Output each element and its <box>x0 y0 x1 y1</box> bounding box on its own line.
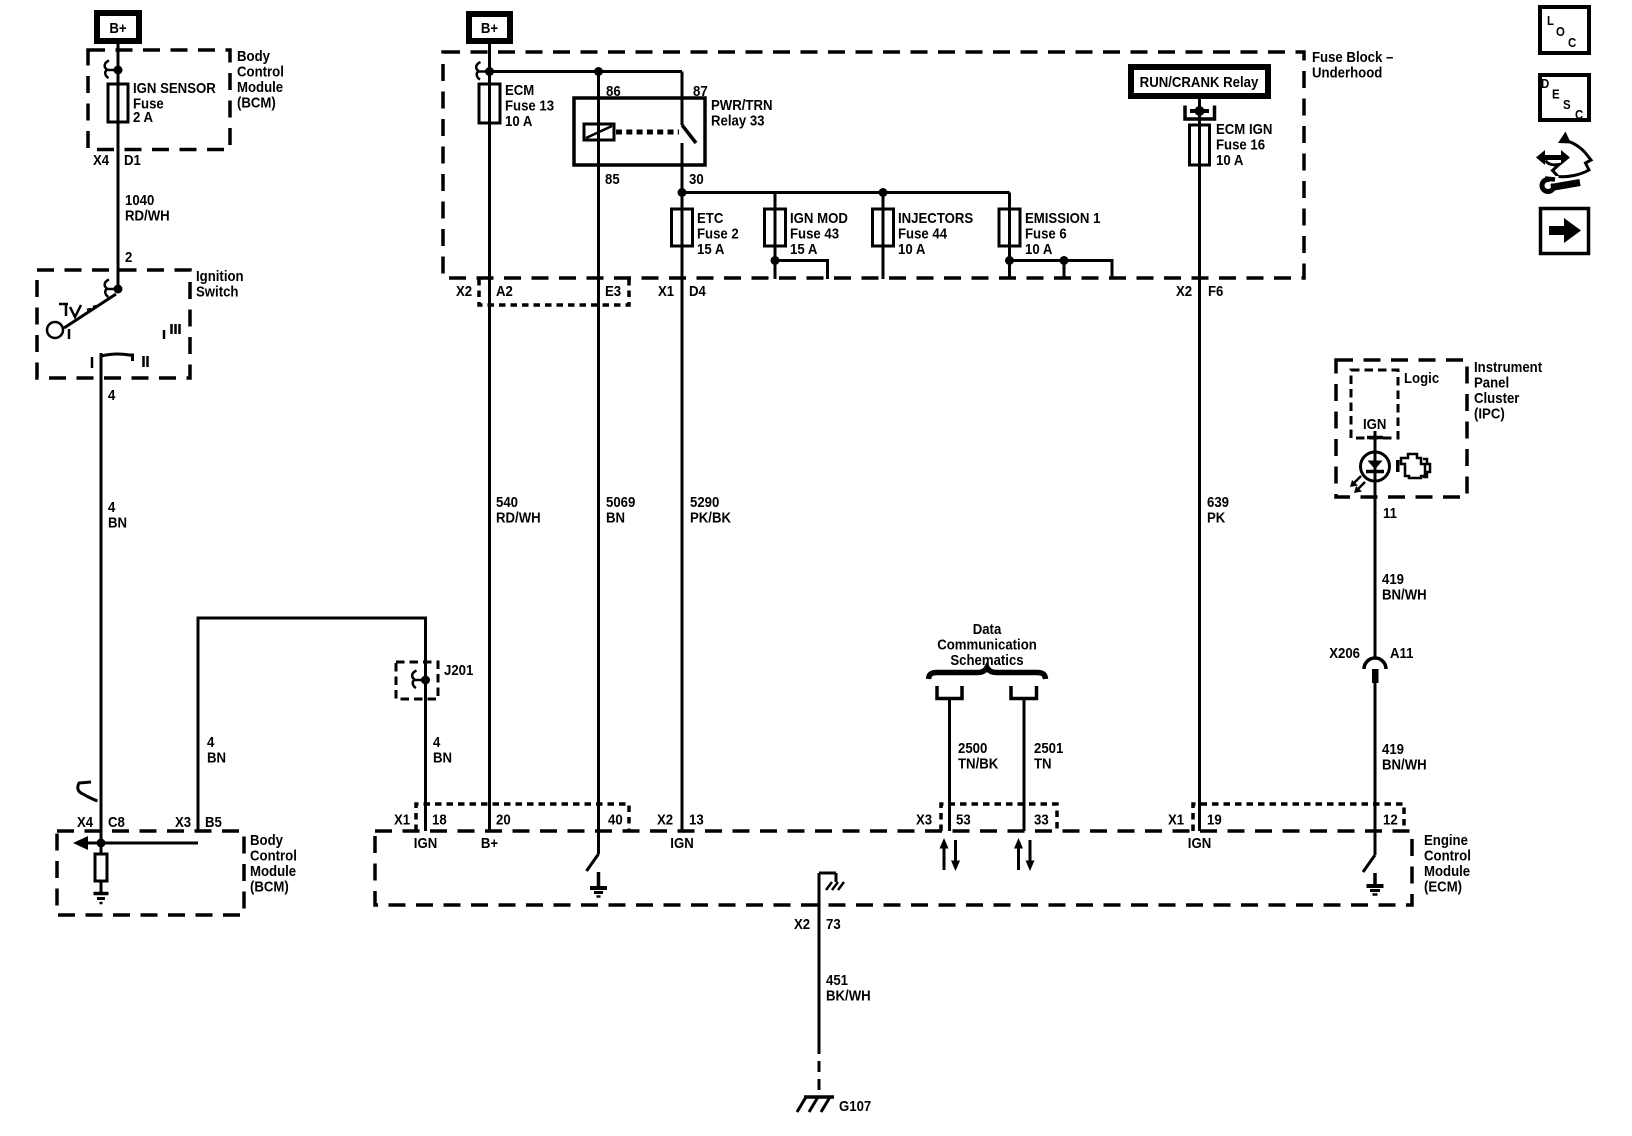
indicator lamp (LED) <box>1350 452 1390 493</box>
BCM internal bus with arrow <box>73 836 198 850</box>
svg-text:S: S <box>1563 97 1571 112</box>
svg-text:4: 4 <box>108 498 115 515</box>
Logic box <box>1351 370 1398 438</box>
RUN/CRANK Relay label box <box>1131 67 1268 96</box>
pin labels X4 D1 <box>93 151 141 168</box>
svg-text:D1: D1 <box>124 151 141 168</box>
svg-text:2 A: 2 A <box>133 108 153 125</box>
svg-text:10 A: 10 A <box>1216 151 1243 168</box>
svg-text:Control: Control <box>250 847 297 864</box>
svg-text:Control: Control <box>237 63 284 80</box>
svg-text:X1: X1 <box>394 811 410 828</box>
icon forward arrow box <box>1541 209 1589 254</box>
svg-text:RD/WH: RD/WH <box>125 207 170 224</box>
Engine Control Module (ECM) box <box>375 831 1412 905</box>
icon LOC box <box>1540 7 1589 53</box>
svg-text:IGN: IGN <box>1363 415 1386 432</box>
arc dashes <box>87 309 91 310</box>
svg-text:(IPC): (IPC) <box>1474 405 1505 422</box>
wire 2501 TN <box>1023 699 1026 832</box>
Body Control Module (BCM) box bottom <box>57 831 244 915</box>
svg-text:Fuse 6: Fuse 6 <box>1025 225 1067 242</box>
wire logic to indicator <box>1367 431 1383 658</box>
svg-text:X206: X206 <box>1329 644 1360 661</box>
svg-text:BN: BN <box>606 509 625 526</box>
splice J201 <box>396 661 473 699</box>
svg-text:419: 419 <box>1382 740 1404 757</box>
junction dot <box>114 66 123 75</box>
pin labels X4 C8 X3 B5 <box>77 813 222 830</box>
fuse IGN MOD Fuse 43 15A <box>765 193 848 280</box>
svg-text:Body: Body <box>250 831 283 848</box>
junction dot pin 2 <box>114 285 123 294</box>
svg-text:10 A: 10 A <box>505 112 532 129</box>
svg-text:X4: X4 <box>93 151 109 168</box>
ignition switch internals <box>47 280 180 369</box>
position mark III <box>170 324 173 334</box>
ECM internal switch and ground pin 12 <box>1363 831 1384 895</box>
svg-text:B+: B+ <box>109 19 126 36</box>
wire label 4 BN (right run) <box>433 733 452 765</box>
wire label 4 BN (left run) <box>207 733 226 765</box>
svg-text:Underhood: Underhood <box>1312 64 1382 81</box>
svg-text:BK/WH: BK/WH <box>826 987 871 1004</box>
ECM connector X3 pin box (53 33) <box>941 804 1057 831</box>
svg-text:Logic: Logic <box>1404 369 1439 386</box>
svg-text:(ECM): (ECM) <box>1424 878 1462 895</box>
wire B+ to ignition switch (through IGN SENSOR fuse) <box>117 44 120 289</box>
svg-text:RUN/CRANK Relay: RUN/CRANK Relay <box>1140 73 1259 90</box>
svg-text:A2: A2 <box>496 282 513 299</box>
svg-text:73: 73 <box>826 915 841 932</box>
svg-text:11: 11 <box>1383 504 1397 521</box>
fuse feed bus <box>682 191 1010 194</box>
relay label PWR/TRN Relay 33 <box>711 96 773 128</box>
relay switch blade <box>682 125 696 143</box>
relay actuation dashed link <box>616 130 679 135</box>
svg-text:Data: Data <box>973 620 1002 637</box>
svg-text:Fuse 16: Fuse 16 <box>1216 136 1265 153</box>
svg-text:X4: X4 <box>77 813 93 830</box>
svg-text:IGN: IGN <box>414 834 437 851</box>
ECM label <box>1424 831 1471 894</box>
wire label 639 PK <box>1207 493 1229 525</box>
svg-text:BN/WH: BN/WH <box>1382 756 1427 773</box>
svg-text:E: E <box>1552 87 1560 102</box>
svg-text:O: O <box>1556 24 1565 39</box>
svg-text:18: 18 <box>432 811 447 828</box>
svg-text:L: L <box>1547 13 1554 28</box>
BCM bottom label <box>250 831 297 894</box>
off-page bracket (2501) <box>1011 686 1037 699</box>
Body Control Module (BCM) box top <box>88 50 230 150</box>
wire 4 BN jumper BCM B5 to J201 to ECM 18 <box>198 618 426 831</box>
relay coil <box>584 124 614 140</box>
junction dot pin 30 <box>678 188 687 197</box>
position mark IV <box>59 303 68 306</box>
svg-text:A11: A11 <box>1390 644 1414 661</box>
svg-text:19: 19 <box>1207 811 1222 828</box>
wire label 419 BN/WH (upper) <box>1382 570 1427 602</box>
svg-text:Relay 33: Relay 33 <box>711 112 765 129</box>
svg-text:Control: Control <box>1424 847 1471 864</box>
svg-text:87: 87 <box>693 82 708 99</box>
off-page bracket (2500) <box>937 686 962 699</box>
wire 451 BK/WH <box>818 905 821 1094</box>
wire label 451 BK/WH <box>826 971 871 1003</box>
svg-text:4: 4 <box>433 733 440 750</box>
ECM internal chassis ground pin 73 <box>819 873 844 905</box>
svg-text:J201: J201 <box>444 661 473 678</box>
svg-text:ECM: ECM <box>505 81 534 98</box>
svg-text:Fuse 44: Fuse 44 <box>898 225 947 242</box>
svg-text:PK/BK: PK/BK <box>690 509 732 526</box>
wire 639 PK (relay to ECM IGN fuse to ECM pin 19) <box>1198 97 1201 831</box>
svg-text:10 A: 10 A <box>1025 240 1052 257</box>
svg-text:Body: Body <box>237 47 270 64</box>
connector terminal hook fuse block feed <box>476 62 485 80</box>
wire 419 BN/WH to ECM pin 12 <box>1374 683 1377 831</box>
serial data arrows pin 33 <box>1014 838 1035 871</box>
wire 5069 BN (relay 85 to ECM pin 40) <box>597 72 600 832</box>
svg-text:(BCM): (BCM) <box>237 94 276 111</box>
svg-text:ECM IGN: ECM IGN <box>1216 120 1272 137</box>
position mark II <box>142 356 145 367</box>
svg-text:Engine: Engine <box>1424 831 1468 848</box>
svg-text:X2: X2 <box>794 915 810 932</box>
svg-text:PWR/TRN: PWR/TRN <box>711 96 773 113</box>
icon DESC box <box>1540 75 1589 122</box>
svg-text:53: 53 <box>956 811 971 828</box>
svg-text:15 A: 15 A <box>697 240 724 257</box>
svg-text:BN: BN <box>433 749 452 766</box>
note Data Communication Schematics <box>937 620 1037 668</box>
svg-text:419: 419 <box>1382 570 1404 587</box>
ECM pin function labels <box>414 834 1211 851</box>
Ignition Switch label <box>196 267 244 299</box>
svg-text:F6: F6 <box>1208 282 1224 299</box>
svg-text:EMISSION 1: EMISSION 1 <box>1025 209 1101 226</box>
svg-text:Ignition: Ignition <box>196 267 244 284</box>
connector X2 pin box <box>479 279 629 305</box>
BCM label <box>237 47 284 110</box>
wire 540 RD/WH (B+ to ECM fuse 13 to ECM pin 20) <box>488 44 491 831</box>
icon jump-to-schematic <box>1536 132 1591 192</box>
svg-text:IGN SENSOR: IGN SENSOR <box>133 79 216 96</box>
svg-text:Fuse 2: Fuse 2 <box>697 225 739 242</box>
svg-text:Module: Module <box>1424 862 1470 879</box>
svg-text:X1: X1 <box>658 282 674 299</box>
svg-text:X3: X3 <box>916 811 932 828</box>
wire label 540 RD/WH <box>496 493 541 525</box>
junction dot injectors branch <box>879 188 888 197</box>
svg-text:540: 540 <box>496 493 518 510</box>
svg-text:20: 20 <box>496 811 511 828</box>
wire label 2500 TN/BK <box>958 739 999 771</box>
junction dot <box>485 67 494 76</box>
ECM internal switch and ground pin 40 <box>587 831 608 897</box>
svg-text:Cluster: Cluster <box>1474 389 1520 406</box>
rotor contact circle <box>47 322 63 338</box>
ECM pin labels <box>394 811 1398 828</box>
power symbol B+ (center, fuse block feed) <box>469 14 510 41</box>
svg-text:1040: 1040 <box>125 191 154 208</box>
wire pin 87 stub <box>681 72 684 126</box>
svg-text:RD/WH: RD/WH <box>496 509 541 526</box>
svg-text:5069: 5069 <box>606 493 635 510</box>
wire label 419 BN/WH (lower) <box>1382 740 1427 772</box>
svg-text:(BCM): (BCM) <box>250 878 289 895</box>
svg-text:86: 86 <box>606 82 621 99</box>
svg-text:PK: PK <box>1207 509 1226 526</box>
svg-text:ETC: ETC <box>697 209 723 226</box>
svg-text:C: C <box>1568 35 1576 50</box>
svg-text:B+: B+ <box>481 834 498 851</box>
fuse INJECTORS Fuse 44 10A <box>873 193 974 280</box>
svg-text:IGN: IGN <box>1188 834 1211 851</box>
svg-text:Fuse 43: Fuse 43 <box>790 225 839 242</box>
wire label 1040 RD/WH <box>125 191 170 223</box>
svg-text:BN: BN <box>108 514 127 531</box>
svg-text:D: D <box>1541 76 1549 91</box>
svg-text:15 A: 15 A <box>790 240 817 257</box>
svg-text:12: 12 <box>1383 811 1398 828</box>
svg-text:639: 639 <box>1207 493 1229 510</box>
ECM connector X1 pin box (19 12) <box>1193 804 1404 831</box>
fuse ECM Fuse 13 10A <box>479 81 554 129</box>
wire label 2501 TN <box>1034 739 1063 771</box>
ground G107 <box>797 1097 871 1114</box>
inline connector X206 A11 <box>1329 644 1413 683</box>
svg-text:Module: Module <box>250 862 296 879</box>
svg-text:5290: 5290 <box>690 493 719 510</box>
svg-text:4: 4 <box>207 733 214 750</box>
svg-text:30: 30 <box>689 170 704 187</box>
svg-text:C: C <box>1575 107 1583 122</box>
ECM connector X1 pin box (18 20 40) <box>416 804 629 831</box>
svg-text:X1: X1 <box>1168 811 1184 828</box>
svg-text:Fuse Block –: Fuse Block – <box>1312 48 1393 65</box>
svg-text:IGN MOD: IGN MOD <box>790 209 848 226</box>
junction dot pin 86 branch <box>594 67 603 76</box>
relay output terminal bracket <box>1185 106 1215 120</box>
connector terminal hook (BCM B+ input) <box>105 61 114 79</box>
svg-text:X2: X2 <box>657 811 673 828</box>
wire 5290 PK/BK (relay 30 through ETC fuse to ECM pin 13) <box>681 143 684 831</box>
pin 4 contact <box>101 354 133 361</box>
fuse block pin labels X2 A2 E3 X1 D4 X2 F6 <box>456 282 1224 299</box>
wire 2500 TN/BK <box>948 699 951 832</box>
wire label 5069 BN <box>606 493 635 525</box>
check engine icon <box>1396 454 1430 478</box>
relay pin labels 86 87 85 30 <box>605 82 708 187</box>
terminal hook pin 2 <box>105 280 109 298</box>
fuse IGN SENSOR Fuse 2A <box>108 79 216 125</box>
svg-text:IGN: IGN <box>670 834 693 851</box>
svg-text:X2: X2 <box>456 282 472 299</box>
svg-text:2: 2 <box>125 248 132 265</box>
Fuse Block - Underhood box <box>443 52 1304 278</box>
svg-text:B5: B5 <box>205 813 222 830</box>
wire label 4 BN <box>108 498 127 530</box>
BCM internal element <box>95 854 107 881</box>
svg-text:Switch: Switch <box>196 283 238 300</box>
wire 4 BN ignition switch to BCM C8 <box>100 353 103 854</box>
svg-text:Instrument: Instrument <box>1474 358 1542 375</box>
svg-text:Communication: Communication <box>937 636 1037 653</box>
svg-text:Module: Module <box>237 78 283 95</box>
Fuse Block label <box>1312 48 1393 80</box>
svg-text:40: 40 <box>608 811 623 828</box>
grouping brace <box>929 668 1046 680</box>
svg-text:13: 13 <box>689 811 704 828</box>
svg-text:Fuse 13: Fuse 13 <box>505 97 554 114</box>
relay PWR/TRN Relay 33 box <box>574 98 705 165</box>
svg-text:10 A: 10 A <box>898 240 925 257</box>
svg-text:G107: G107 <box>839 1097 871 1114</box>
wire label 5290 PK/BK <box>690 493 732 525</box>
fuse ETC Fuse 2 15A <box>672 209 739 257</box>
connector terminal hook C8 <box>78 782 98 801</box>
svg-text:4: 4 <box>108 386 115 403</box>
svg-text:2501: 2501 <box>1034 739 1063 756</box>
svg-text:E3: E3 <box>605 282 621 299</box>
power symbol B+ (left, BCM feed) <box>97 13 139 41</box>
svg-text:X3: X3 <box>175 813 191 830</box>
svg-text:Panel: Panel <box>1474 374 1509 391</box>
svg-text:D4: D4 <box>689 282 706 299</box>
svg-text:BN/WH: BN/WH <box>1382 586 1427 603</box>
svg-text:INJECTORS: INJECTORS <box>898 209 973 226</box>
svg-text:TN: TN <box>1034 755 1052 772</box>
svg-text:33: 33 <box>1034 811 1049 828</box>
svg-text:B+: B+ <box>481 19 498 36</box>
svg-text:TN/BK: TN/BK <box>958 755 999 772</box>
pin labels X2 73 <box>794 915 841 932</box>
svg-text:451: 451 <box>826 971 848 988</box>
svg-text:2500: 2500 <box>958 739 987 756</box>
wire B+ bus to relay <box>490 70 683 73</box>
svg-text:BN: BN <box>207 749 226 766</box>
Instrument Panel Cluster (IPC) box <box>1336 360 1467 497</box>
serial data arrows pin 53 <box>940 838 961 871</box>
fuse ECM IGN Fuse 16 10A <box>1190 120 1273 168</box>
BCM internal ground <box>94 881 109 903</box>
svg-text:C8: C8 <box>108 813 125 830</box>
svg-text:X2: X2 <box>1176 282 1192 299</box>
fuse EMISSION 1 Fuse 6 10A <box>999 193 1112 280</box>
svg-text:85: 85 <box>605 170 620 187</box>
Ignition Switch box <box>37 270 190 378</box>
switch arm <box>64 294 116 328</box>
IPC label <box>1474 358 1542 421</box>
